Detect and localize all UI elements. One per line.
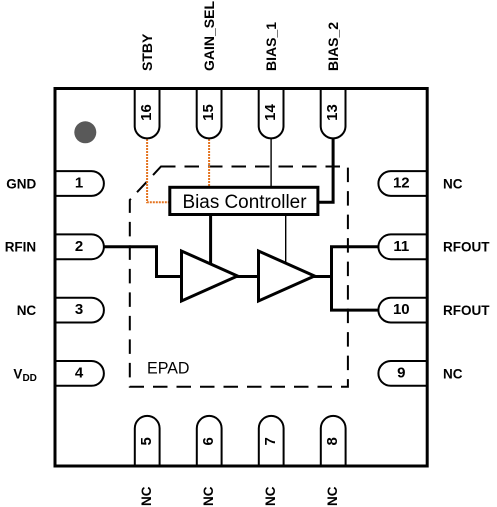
bias controller block: [170, 187, 318, 214]
wire STBY dotted (pin16 to bias controller): [147, 139, 168, 202]
svg-text:13: 13: [324, 104, 341, 121]
pin 1 marker dot: [74, 121, 96, 143]
svg-text:NC: NC: [443, 366, 463, 381]
pin 10: [378, 298, 427, 323]
svg-text:1: 1: [75, 175, 83, 192]
pin 13: [321, 89, 346, 139]
pin 8: [321, 416, 346, 466]
svg-text:11: 11: [393, 238, 409, 255]
svg-text:4: 4: [75, 365, 84, 382]
svg-text:15: 15: [200, 104, 217, 121]
wire to pin11 RFOUT: [330, 245, 378, 248]
svg-text:NC: NC: [325, 486, 340, 506]
pin 2: [55, 234, 104, 259]
svg-text:5: 5: [138, 437, 155, 445]
wire A1 output to A2 input: [236, 275, 260, 278]
wire BIAS_1 (pin14 to bias controller top): [270, 139, 272, 189]
svg-text:RFOUT: RFOUT: [443, 303, 490, 318]
svg-text:NC: NC: [17, 303, 37, 318]
amplifier A2: [259, 251, 315, 301]
svg-text:12: 12: [393, 175, 410, 192]
pin 15: [197, 89, 222, 139]
svg-text:NC: NC: [139, 486, 154, 506]
pin 1: [55, 171, 104, 196]
wire to pin10 RFOUT: [330, 309, 378, 312]
wire GAIN_SEL dotted (pin15 to bias controller): [208, 139, 210, 187]
pin 14: [259, 89, 284, 139]
wire RFOUT vertical bus: [330, 247, 333, 310]
svg-text:7: 7: [262, 437, 279, 445]
pin 7: [259, 416, 284, 466]
svg-text:2: 2: [75, 238, 83, 255]
svg-text:VDD: VDD: [13, 366, 36, 384]
pin 16: [135, 89, 160, 139]
package body outline: [55, 89, 427, 467]
svg-text:Bias Controller: Bias Controller: [183, 192, 308, 213]
wire A2 output to RFOUT node: [313, 275, 332, 278]
svg-text:9: 9: [397, 365, 405, 382]
wire BIAS_2 (pin13 to bias controller right side): [319, 139, 333, 202]
svg-text:NC: NC: [201, 486, 216, 506]
EPAD dashed boundary: [130, 167, 348, 387]
svg-text:16: 16: [138, 104, 155, 121]
svg-text:GAIN_SEL: GAIN_SEL: [201, 1, 217, 71]
svg-text:10: 10: [393, 301, 410, 318]
svg-text:RFOUT: RFOUT: [443, 240, 490, 255]
svg-text:NC: NC: [263, 486, 278, 506]
wire RFIN (pin2 to amp A1 input): [104, 247, 182, 277]
svg-text:3: 3: [75, 301, 83, 318]
pin 6: [197, 416, 222, 466]
pin 11: [378, 234, 427, 259]
pin 12: [378, 171, 427, 196]
pin 3: [55, 298, 104, 323]
pin 9: [378, 361, 427, 386]
svg-text:RFIN: RFIN: [5, 240, 37, 255]
svg-text:GND: GND: [6, 176, 36, 191]
svg-text:BIAS_2: BIAS_2: [325, 22, 341, 71]
svg-text:14: 14: [262, 104, 279, 121]
svg-text:STBY: STBY: [139, 33, 155, 71]
amplifier A1: [182, 251, 238, 301]
svg-text:6: 6: [200, 437, 217, 445]
wire bias controller to amp A1: [209, 215, 212, 265]
svg-text:8: 8: [324, 437, 341, 445]
svg-text:BIAS_1: BIAS_1: [263, 22, 279, 71]
svg-text:NC: NC: [443, 176, 463, 191]
pin 4: [55, 361, 104, 386]
pin 5: [135, 416, 160, 466]
wire bias controller to amp A2: [285, 215, 287, 264]
svg-text:EPAD: EPAD: [147, 358, 190, 377]
